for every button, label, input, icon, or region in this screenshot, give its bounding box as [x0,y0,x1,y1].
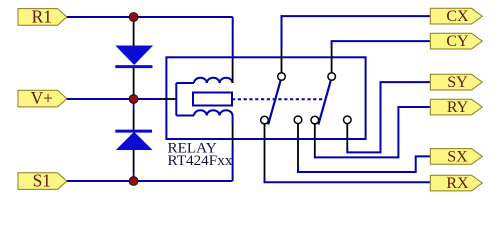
port V+ [18,88,67,108]
switch 2 NO pin [346,124,348,148]
svg-text:RY: RY [447,99,469,116]
relay U1 coil pin (V+ side) [161,98,176,100]
relay U1 coil top pin [232,57,234,83]
dashed actuation link [232,98,323,100]
relay U1 coil bottom lead [232,116,234,125]
relay U1 coil bracket [176,83,194,116]
diode D1 [115,20,152,99]
wire SX [298,156,430,172]
wire S1 horizontal [67,180,233,182]
junction V+ [129,95,138,104]
svg-text:R1: R1 [32,7,52,27]
switch 1 NO pin [297,124,299,166]
wire S1 vertical up to relay coil [232,146,234,181]
relay U1 body box [166,57,365,139]
port S1 [18,171,67,191]
port CX [430,8,482,25]
svg-text:RT424Fxx: RT424Fxx [168,152,233,169]
svg-text:RX: RX [446,175,469,192]
wire RX [265,178,431,183]
wire RY [315,107,431,157]
relay U1 coil top winding [194,78,233,83]
switch 1 common pin [264,124,266,178]
switch 2 common contact c3 [311,116,319,124]
svg-text:CY: CY [446,33,469,50]
port CY [430,33,482,50]
wire SY [347,82,430,152]
switch 1 common contact c1 [261,116,269,124]
wire R1 horizontal [67,16,233,18]
switch 2 common pin [314,124,316,156]
switch 1 NC pin (to CX) [281,50,283,73]
switch 1 NC contact [278,73,286,81]
diode D2 [115,99,152,181]
switch 1 NO contact c2 [294,116,302,124]
junction R1 [129,13,138,22]
wire V+ horizontal [67,98,161,100]
relay U1 coil rectangle [193,93,232,106]
switch 2 NO contact c4 [344,116,352,124]
wire CX [282,16,431,50]
relay U1 coil bottom pin [232,124,234,146]
svg-text:S1: S1 [33,171,51,191]
svg-text:CX: CX [446,8,469,25]
port SX [430,148,482,165]
port RX [430,175,482,192]
svg-text:SX: SX [447,148,468,165]
wire R1 vertical drop to relay coil [232,17,234,57]
wire CY [332,41,431,48]
switch 2 NC contact [328,73,336,81]
svg-text:SY: SY [447,74,468,91]
svg-text:V+: V+ [31,88,53,108]
switch 2 arm [318,81,330,125]
port RY [430,99,482,116]
port SY [430,74,482,91]
junction S1 [129,177,138,186]
switch 2 NC pin (to CY) [331,48,333,73]
switch 1 arm [268,81,280,125]
relay U1 coil bottom winding [194,110,233,115]
port R1 [18,7,67,27]
